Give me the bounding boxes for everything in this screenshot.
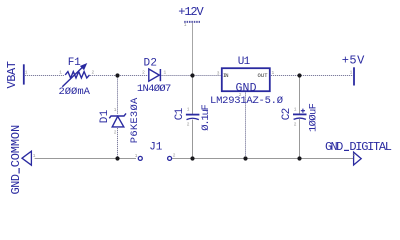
svg-text:1: 1 bbox=[184, 22, 187, 28]
svg-text:1: 1 bbox=[187, 106, 190, 112]
svg-text:2: 2 bbox=[294, 121, 297, 127]
svg-text:1: 1 bbox=[25, 70, 28, 76]
svg-text:D1: D1 bbox=[99, 109, 111, 123]
svg-text:2: 2 bbox=[114, 130, 117, 136]
svg-text:U1: U1 bbox=[238, 56, 251, 68]
svg-text:1: 1 bbox=[350, 70, 353, 76]
svg-text:DIGITAL: DIGITAL bbox=[349, 140, 392, 154]
svg-text:1: 1 bbox=[164, 70, 167, 76]
svg-text:F1: F1 bbox=[68, 57, 81, 69]
svg-text:2: 2 bbox=[92, 70, 95, 76]
svg-text:COMMON: COMMON bbox=[9, 125, 23, 168]
svg-text:1: 1 bbox=[353, 152, 356, 158]
svg-text:P6KE3ØA: P6KE3ØA bbox=[129, 97, 141, 143]
svg-text:LM2931AZ-5.Ø: LM2931AZ-5.Ø bbox=[210, 95, 283, 107]
svg-text:1ØØuF: 1ØØuF bbox=[308, 103, 320, 132]
svg-text:2: 2 bbox=[187, 121, 190, 127]
svg-text:1: 1 bbox=[33, 153, 36, 159]
svg-text:1: 1 bbox=[294, 106, 297, 112]
svg-text:1: 1 bbox=[59, 70, 62, 76]
svg-text:+12V: +12V bbox=[178, 5, 204, 19]
svg-text:GND: GND bbox=[9, 174, 23, 195]
svg-text:J1: J1 bbox=[149, 142, 162, 154]
svg-text:2ØØmA: 2ØØmA bbox=[58, 86, 90, 98]
svg-text:1: 1 bbox=[114, 107, 117, 113]
svg-text:C1: C1 bbox=[174, 107, 186, 120]
svg-text:D2: D2 bbox=[143, 58, 157, 70]
svg-text:IN: IN bbox=[223, 72, 229, 79]
svg-text:2: 2 bbox=[142, 70, 145, 76]
svg-text:+5V: +5V bbox=[342, 54, 365, 68]
svg-text:GND: GND bbox=[325, 140, 343, 154]
svg-text:Ø.1uF: Ø.1uF bbox=[200, 104, 212, 131]
svg-text:OUT: OUT bbox=[258, 72, 269, 79]
svg-text:1: 1 bbox=[272, 70, 275, 76]
svg-text:VBAT: VBAT bbox=[5, 61, 19, 89]
svg-text:C2: C2 bbox=[281, 108, 293, 121]
svg-text:1N4ØØ7: 1N4ØØ7 bbox=[137, 83, 172, 95]
svg-text:2: 2 bbox=[173, 152, 176, 158]
svg-text:3: 3 bbox=[217, 71, 220, 77]
svg-text:2: 2 bbox=[239, 92, 242, 98]
svg-text:1: 1 bbox=[135, 153, 138, 159]
